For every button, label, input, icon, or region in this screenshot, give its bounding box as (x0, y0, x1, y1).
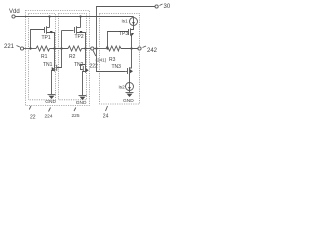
wire TN3 drain (131, 49, 133, 68)
terminal 242 (138, 47, 141, 50)
svg-text:TP2: TP2 (75, 34, 84, 40)
lead line 221 (17, 46, 20, 48)
block 22 dashed box (26, 11, 90, 106)
sub-block 224 dashed box (29, 14, 56, 100)
wire TP2 source (80, 17, 82, 28)
wire TP2 drain to node2 (85, 33, 87, 49)
node junction TP2 source on rail (79, 15, 81, 17)
transistor TN2 (83, 65, 89, 78)
transistor TP3 (129, 28, 135, 37)
node junction node1 tap (60, 47, 62, 49)
wire Is2 to GND3 (129, 91, 131, 93)
terminal Vdd (12, 15, 15, 18)
wire node2 mid (94, 48, 106, 50)
terminal 221 (20, 47, 23, 50)
wire node2 left (82, 48, 91, 50)
svg-text:TN3: TN3 (112, 64, 122, 70)
terminal 30 (155, 5, 158, 8)
node junction TP3 gate tap (106, 47, 108, 49)
wire TN2 gate hook (81, 65, 86, 70)
svg-text:242: 242 (147, 48, 158, 54)
wire Is1 to TP3 (133, 26, 135, 30)
wire node0 (24, 48, 36, 50)
node junction TP1 source on rail (48, 15, 50, 17)
svg-text:TN1: TN1 (43, 62, 53, 68)
wire TP2 gate (62, 30, 74, 32)
current source Is2 (126, 83, 134, 91)
node junction node2 terminal30 tap (95, 47, 97, 49)
resistor R2 (68, 46, 82, 51)
wire TP2 TN1 gate tap (57, 31, 62, 68)
wire node1 (50, 48, 68, 50)
svg-text:R2: R2 (69, 54, 76, 60)
svg-text:GND: GND (123, 98, 134, 104)
transistor TN3 (125, 67, 133, 78)
wire TP1 drain to node1 (54, 33, 56, 49)
wire node3 (121, 48, 138, 50)
svg-text:R3: R3 (109, 57, 116, 63)
wire TP1 source (49, 17, 51, 28)
wire TN2 source (82, 78, 84, 96)
svg-text:GND: GND (45, 99, 56, 105)
wire to terminal 30 (97, 7, 156, 49)
wire TN3 source (129, 78, 131, 83)
lead line 224 (49, 108, 51, 112)
ground GND3 (126, 93, 134, 98)
svg-text:225: 225 (72, 113, 80, 119)
lead line 225 (74, 108, 76, 112)
node junction node1 TN1 drain (53, 47, 55, 49)
wire TN1 source (51, 77, 53, 95)
ground GND1 (48, 95, 56, 100)
lead line 30 (160, 4, 163, 6)
wire TN3 gate run (97, 49, 126, 72)
resistor R3 (106, 46, 121, 51)
node junction node3 (130, 47, 132, 49)
sub-block 225 dashed box (59, 14, 87, 100)
block 24 dashed box (100, 14, 140, 105)
lead line 242 (143, 46, 147, 48)
svg-text:224: 224 (45, 114, 53, 120)
lead line 24 (106, 106, 108, 111)
transistor TP1 (45, 26, 55, 35)
transistor TP2 (75, 26, 86, 35)
svg-text:R1: R1 (41, 54, 48, 60)
wire TN2 drain (85, 49, 87, 68)
wire Is1 top stub (133, 17, 135, 19)
svg-text:TP3: TP3 (119, 31, 128, 37)
svg-text:Is2: Is2 (119, 84, 126, 89)
svg-text:24: 24 (103, 114, 109, 120)
node junction node0 gate tap (29, 47, 31, 49)
wire TP3 drain to node3 (131, 35, 133, 49)
svg-text:30: 30 (164, 4, 171, 10)
wire TN1 drain (54, 49, 56, 68)
svg-text:Vdd: Vdd (9, 9, 20, 15)
node junction node2 TP2 drain (84, 47, 86, 49)
wire Vdd rail (15, 16, 133, 18)
lead line 22 (29, 106, 31, 110)
svg-text:Is1: Is1 (122, 18, 129, 23)
current source Is1 (130, 18, 138, 26)
svg-text:221: 221 (4, 44, 15, 50)
ground GND2 (79, 96, 87, 101)
resistor R1 (36, 46, 50, 51)
wire TP1 gate (31, 30, 45, 49)
svg-text:(241): (241) (96, 58, 107, 63)
svg-text:TP1: TP1 (42, 35, 51, 41)
wire TP3 gate (108, 32, 129, 49)
terminal 222 (91, 47, 94, 50)
transistor TN1 (52, 64, 57, 77)
lead line 222 (93, 50, 96, 56)
svg-text:GND: GND (76, 100, 87, 106)
svg-text:TN2: TN2 (74, 62, 84, 68)
svg-text:22: 22 (30, 115, 36, 121)
